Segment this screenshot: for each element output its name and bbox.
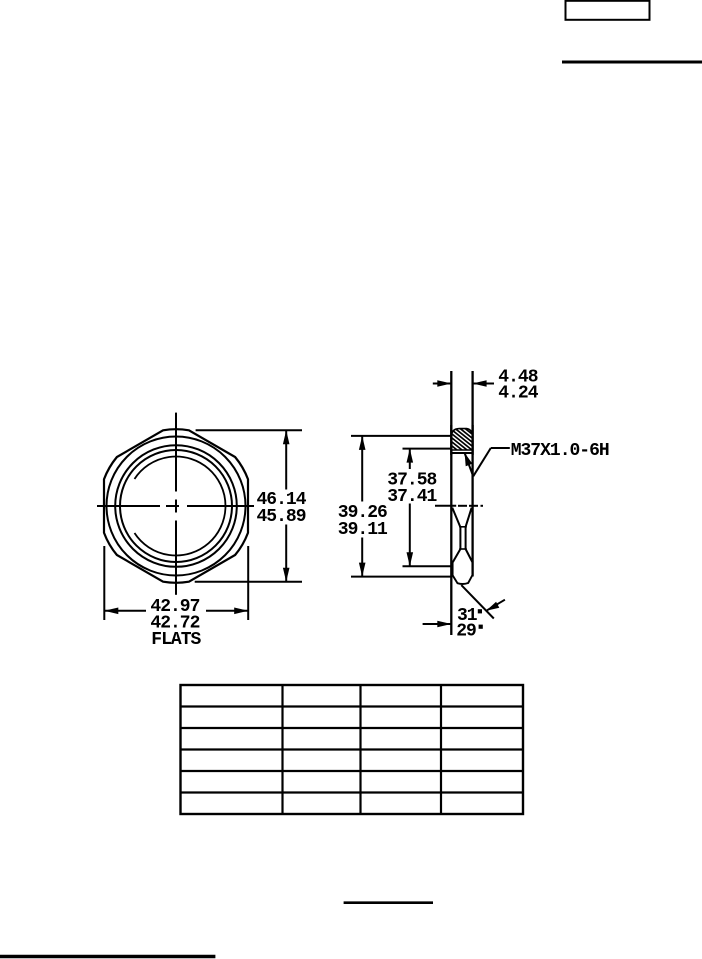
- svg-text:39.11: 39.11: [338, 520, 388, 540]
- svg-text:45.89: 45.89: [257, 507, 306, 527]
- svg-text:37.41: 37.41: [387, 487, 437, 507]
- svg-text:4.24: 4.24: [498, 383, 538, 403]
- svg-text:M37X1.0-6H: M37X1.0-6H: [511, 441, 609, 461]
- svg-text:FLATS: FLATS: [151, 630, 201, 650]
- svg-text:29: 29: [456, 622, 476, 642]
